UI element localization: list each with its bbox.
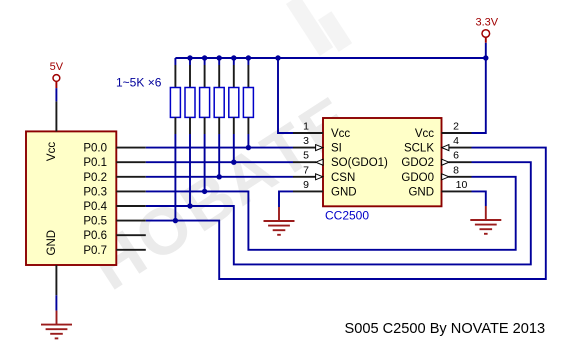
U2 pin labels P0.0-P0.7: [83, 143, 107, 257]
wire pin9 GND to ground: [279, 191, 293, 207]
wire P0.0 to SI: [146, 147, 293, 149]
svg-text:P0.0: P0.0: [83, 143, 107, 155]
power port 3.3V stem: [485, 37, 487, 42]
pin 3 input arrow: [316, 145, 323, 151]
svg-text:P0.6: P0.6: [83, 230, 107, 242]
power port 5V circle: [53, 75, 60, 82]
U1 right pin labels: [401, 128, 434, 198]
top bus wire: [175, 57, 485, 59]
resistor R4: [214, 58, 224, 177]
resistor R5: [229, 58, 239, 162]
U2 GND bottom pin: [55, 265, 57, 295]
pin numbers right: [453, 121, 467, 191]
svg-text:Vcc: Vcc: [46, 142, 58, 161]
wire pin10 GND to ground: [472, 191, 486, 206]
pin 7 input arrow: [316, 174, 323, 180]
U1 left pin stubs (1,3,5,7,9): [293, 133, 323, 191]
svg-text:CSN: CSN: [331, 172, 355, 184]
svg-text:9: 9: [303, 179, 309, 191]
wire 5V to U2 Vcc: [55, 88, 57, 101]
svg-text:8: 8: [453, 164, 459, 176]
svg-text:5: 5: [303, 150, 309, 162]
svg-text:2: 2: [453, 121, 459, 133]
power port 3.3V circle: [482, 30, 490, 38]
IC U2 (left MCU) body: [26, 131, 116, 265]
svg-text:P0.7: P0.7: [83, 245, 107, 257]
svg-text:GND: GND: [331, 186, 357, 198]
svg-text:3: 3: [303, 135, 309, 147]
IC U1 CC2500 body: [323, 118, 442, 206]
svg-text:SCLK: SCLK: [404, 143, 434, 155]
svg-text:10: 10: [456, 179, 468, 191]
junction dots on P0 rows: [173, 145, 251, 223]
svg-text:S005 C2500 By NOVATE 2013: S005 C2500 By NOVATE 2013: [345, 321, 546, 337]
svg-text:1: 1: [303, 121, 309, 133]
pin 8 output arrow: [442, 174, 449, 180]
U2 pin stubs P0.0-P0.7: [116, 148, 146, 250]
svg-text:GND: GND: [46, 230, 58, 256]
pin numbers left: [303, 121, 309, 191]
svg-text:P0.5: P0.5: [83, 216, 107, 228]
wire bus branch to CC2500 pin1 Vcc: [278, 58, 293, 133]
svg-text:GDO0: GDO0: [401, 172, 434, 184]
resistor R3: [200, 58, 210, 191]
svg-text:CC2500: CC2500: [325, 209, 369, 223]
resistor R2: [185, 58, 195, 206]
svg-text:P0.4: P0.4: [83, 201, 107, 213]
watermark: [78, 0, 367, 304]
svg-text:P0.2: P0.2: [83, 172, 107, 184]
svg-text:6: 6: [453, 150, 459, 162]
svg-text:P0.3: P0.3: [83, 186, 107, 198]
ground (pin10, below CC2500 right): [470, 206, 501, 234]
resistor R6: [243, 58, 253, 148]
ground (pin9, below CC2500 left): [264, 207, 295, 235]
svg-text:5V: 5V: [50, 61, 64, 73]
svg-text:1~5K ×6: 1~5K ×6: [116, 76, 162, 90]
svg-text:4: 4: [453, 135, 459, 147]
resistor R1: [170, 58, 180, 221]
svg-text:P0.1: P0.1: [83, 157, 107, 169]
wire 3.3V down to CC2500 pin2 Vcc: [472, 43, 486, 133]
wire P0.1 to SO(GDO1): [146, 161, 293, 163]
svg-text:3.3V: 3.3V: [475, 17, 498, 29]
wire P0.3 to GDO0 (inner U route): [146, 177, 516, 250]
svg-text:GDO2: GDO2: [401, 157, 434, 169]
pin 6 output arrow: [442, 159, 449, 165]
U1 right pin stubs (2,4,6,8,10): [442, 133, 472, 191]
U2 Vcc top pin: [55, 101, 57, 131]
svg-text:Vcc: Vcc: [331, 128, 350, 140]
svg-text:Vcc: Vcc: [415, 128, 434, 140]
svg-text:SO(GDO1): SO(GDO1): [331, 157, 388, 169]
svg-text:7: 7: [303, 164, 309, 176]
U1 left pin labels: [331, 128, 388, 198]
wire P0.4 to GDO2 (middle U route): [146, 162, 531, 264]
junction dots on bus: [187, 55, 488, 60]
pin 5 output arrow: [316, 159, 323, 165]
wire P0.5 to SCLK (outer U route): [146, 148, 546, 279]
ground (below U2): [41, 311, 72, 339]
wire P0.2 to CSN: [146, 176, 293, 178]
svg-text:SI: SI: [331, 143, 342, 155]
wire U2 GND to ground: [55, 295, 57, 310]
power port 5V stem: [55, 81, 57, 88]
pin 4 input arrow: [442, 145, 449, 151]
svg-text:GND: GND: [408, 186, 434, 198]
